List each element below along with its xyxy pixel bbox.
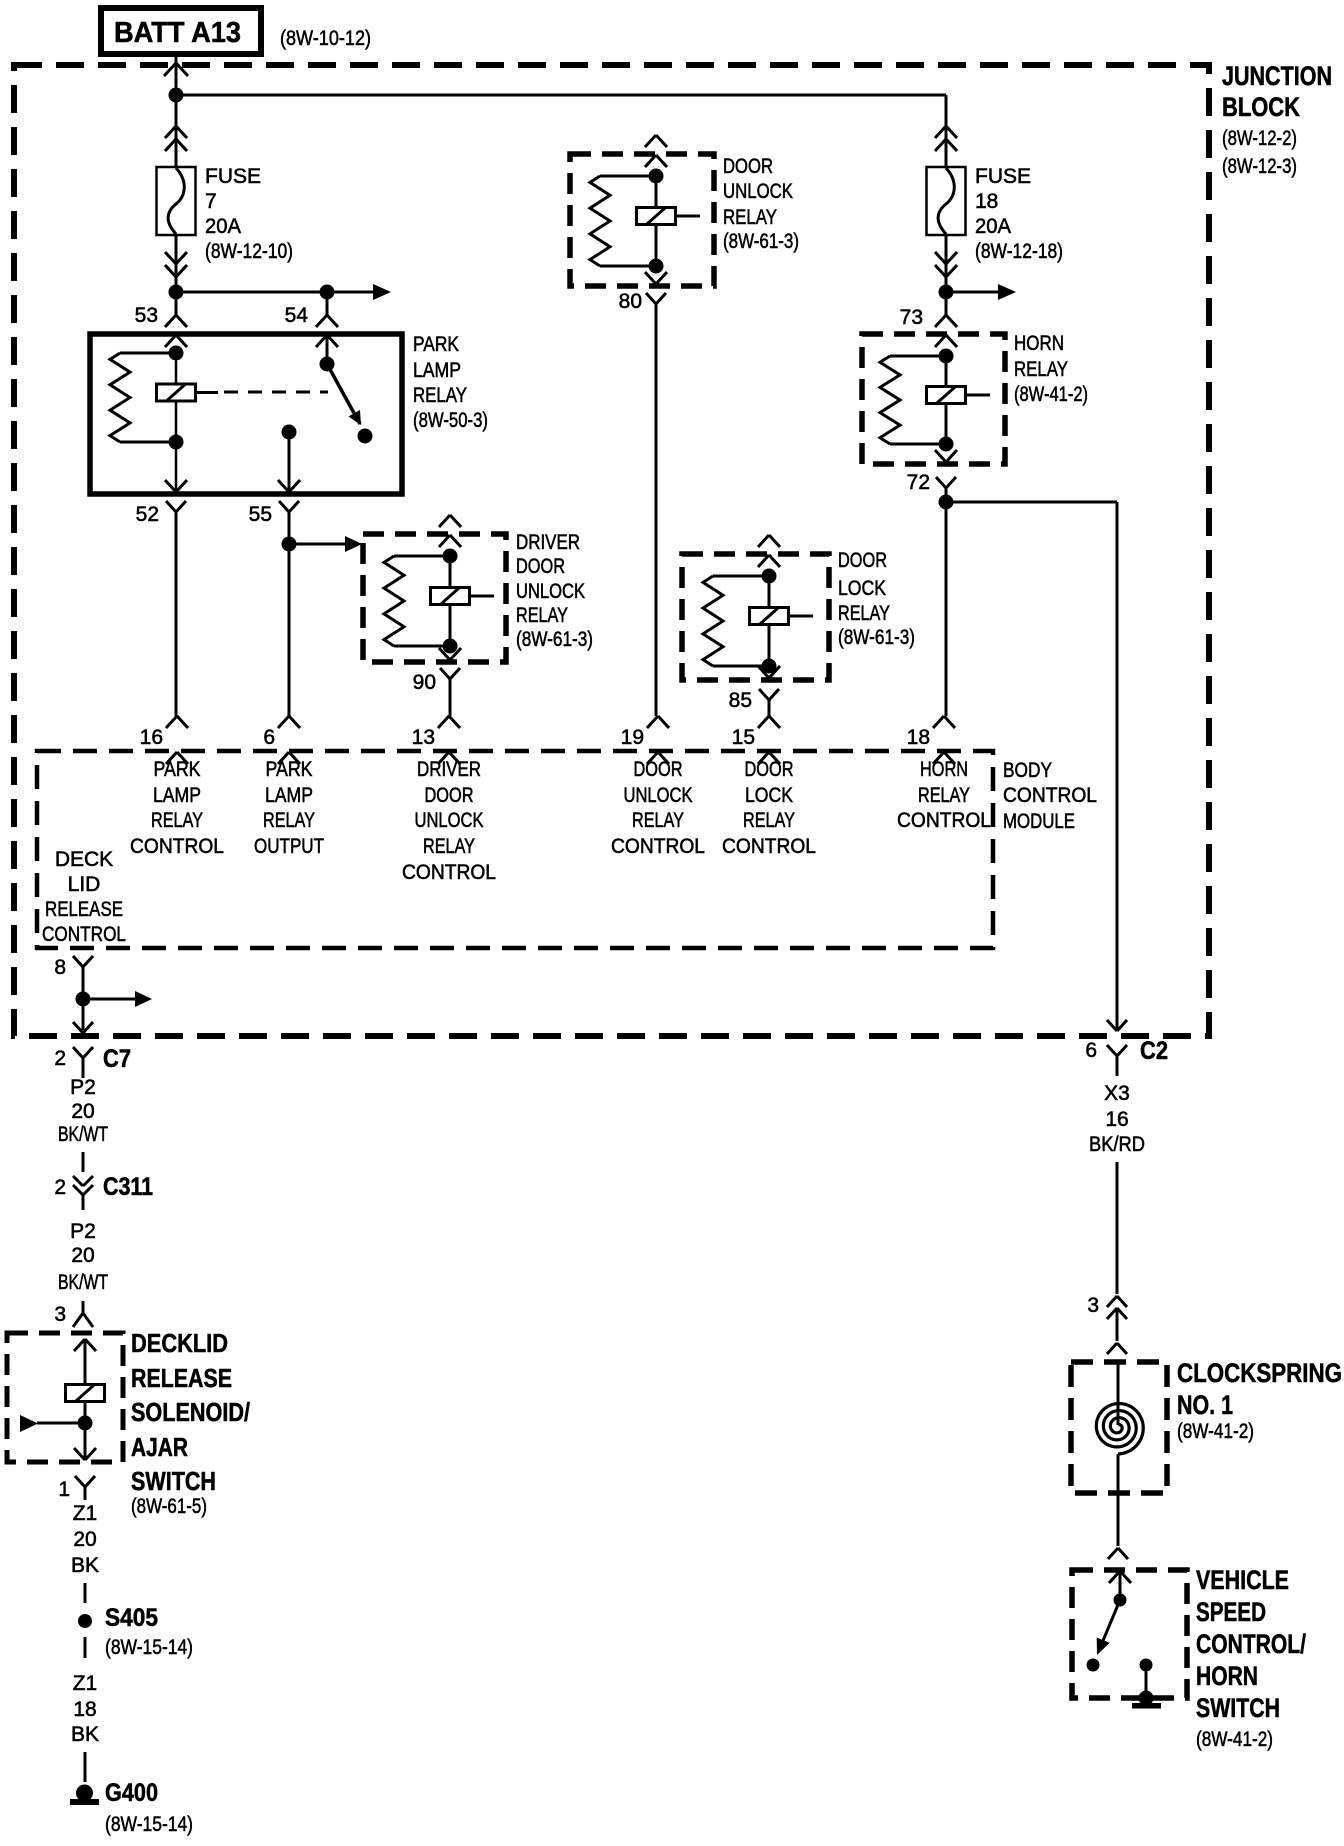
svg-text:UNLOCK: UNLOCK [624, 784, 693, 807]
svg-text:LOCK: LOCK [838, 577, 886, 600]
svg-text:RELAY: RELAY [838, 602, 890, 625]
svg-text:(8W-61-3): (8W-61-3) [723, 230, 799, 253]
svg-text:SWITCH: SWITCH [1196, 1693, 1280, 1723]
svg-text:RELAY: RELAY [632, 809, 684, 832]
svg-text:SOLENOID/: SOLENOID/ [131, 1397, 250, 1427]
svg-text:RELAY: RELAY [723, 206, 777, 229]
svg-text:RELAY: RELAY [1014, 358, 1068, 381]
svg-text:18: 18 [975, 190, 998, 213]
svg-text:DOOR: DOOR [723, 155, 773, 178]
svg-text:G400: G400 [105, 1779, 158, 1807]
svg-text:20: 20 [71, 1100, 94, 1123]
svg-text:80: 80 [619, 290, 642, 313]
svg-text:DOOR: DOOR [838, 549, 887, 572]
svg-text:DOOR: DOOR [745, 758, 794, 781]
svg-text:UNLOCK: UNLOCK [415, 809, 484, 832]
svg-text:DECK: DECK [55, 848, 113, 871]
svg-text:MODULE: MODULE [1003, 810, 1075, 833]
svg-text:BATT A13: BATT A13 [114, 17, 241, 49]
svg-text:C2: C2 [1140, 1037, 1168, 1065]
svg-text:19: 19 [621, 726, 644, 749]
svg-text:3: 3 [1087, 1294, 1099, 1317]
svg-text:73: 73 [900, 306, 923, 329]
svg-text:NO. 1: NO. 1 [1177, 1390, 1233, 1420]
svg-text:(8W-15-14): (8W-15-14) [105, 1813, 193, 1836]
svg-text:(8W-41-2): (8W-41-2) [1196, 1728, 1273, 1751]
svg-text:CONTROL: CONTROL [42, 923, 126, 946]
svg-text:RELEASE: RELEASE [131, 1363, 232, 1393]
svg-text:DOOR: DOOR [516, 555, 565, 578]
svg-text:85: 85 [729, 689, 752, 712]
svg-text:RELAY: RELAY [263, 809, 315, 832]
svg-text:LID: LID [68, 873, 101, 896]
svg-text:SWITCH: SWITCH [131, 1466, 216, 1496]
svg-text:CONTROL/: CONTROL/ [1196, 1629, 1306, 1659]
svg-text:2: 2 [54, 1176, 66, 1199]
svg-text:20: 20 [71, 1244, 94, 1267]
svg-text:HORN: HORN [1014, 332, 1064, 355]
svg-text:PARK: PARK [266, 758, 313, 781]
svg-text:15: 15 [732, 726, 755, 749]
svg-text:BK/RD: BK/RD [1089, 1133, 1145, 1156]
svg-text:FUSE: FUSE [205, 165, 261, 188]
svg-text:DRIVER: DRIVER [417, 758, 481, 781]
svg-text:6: 6 [1085, 1039, 1097, 1062]
svg-text:18: 18 [907, 726, 930, 749]
svg-text:FUSE: FUSE [975, 165, 1031, 188]
svg-text:RELAY: RELAY [516, 604, 568, 627]
svg-text:Z1: Z1 [73, 1672, 98, 1695]
svg-text:HORN: HORN [920, 758, 968, 781]
svg-text:CONTROL: CONTROL [722, 835, 816, 858]
svg-text:HORN: HORN [1196, 1661, 1258, 1691]
svg-text:CONTROL: CONTROL [897, 809, 991, 832]
svg-text:(8W-15-14): (8W-15-14) [105, 1636, 193, 1659]
svg-text:VEHICLE: VEHICLE [1196, 1565, 1289, 1595]
svg-text:20A: 20A [205, 215, 241, 238]
svg-text:CONTROL: CONTROL [611, 835, 705, 858]
svg-text:Z1: Z1 [73, 1502, 98, 1525]
svg-text:RELAY: RELAY [743, 809, 795, 832]
svg-text:C311: C311 [103, 1173, 153, 1201]
svg-text:DOOR: DOOR [634, 758, 683, 781]
svg-text:52: 52 [136, 503, 159, 526]
svg-text:CONTROL: CONTROL [1003, 784, 1097, 807]
svg-text:BLOCK: BLOCK [1222, 92, 1300, 122]
svg-text:(8W-61-3): (8W-61-3) [516, 628, 593, 651]
svg-text:BK: BK [71, 1723, 99, 1746]
svg-text:(8W-12-2): (8W-12-2) [1222, 127, 1297, 150]
svg-text:LAMP: LAMP [413, 359, 461, 382]
svg-text:20A: 20A [975, 215, 1011, 238]
svg-text:S405: S405 [105, 1604, 158, 1632]
svg-text:SPEED: SPEED [1196, 1597, 1266, 1627]
svg-text:16: 16 [1105, 1108, 1128, 1131]
svg-text:AJAR: AJAR [131, 1432, 188, 1462]
svg-text:7: 7 [205, 190, 217, 213]
svg-text:2: 2 [54, 1047, 66, 1070]
svg-text:54: 54 [285, 304, 309, 327]
svg-text:LOCK: LOCK [745, 784, 793, 807]
svg-text:UNLOCK: UNLOCK [516, 580, 585, 603]
svg-text:PARK: PARK [413, 333, 459, 356]
svg-text:CONTROL: CONTROL [130, 835, 224, 858]
svg-text:RELAY: RELAY [423, 835, 475, 858]
svg-text:DECKLID: DECKLID [131, 1328, 228, 1358]
svg-text:LAMP: LAMP [153, 784, 201, 807]
svg-text:(8W-12-10): (8W-12-10) [205, 240, 293, 263]
svg-text:(8W-61-3): (8W-61-3) [838, 626, 915, 649]
svg-text:20: 20 [73, 1528, 96, 1551]
svg-text:CLOCKSPRING: CLOCKSPRING [1177, 1358, 1342, 1388]
svg-text:PARK: PARK [154, 758, 201, 781]
svg-text:P2: P2 [70, 1220, 96, 1243]
svg-text:13: 13 [412, 726, 435, 749]
svg-text:8: 8 [54, 956, 66, 979]
svg-text:3: 3 [54, 1303, 66, 1326]
svg-text:RELAY: RELAY [151, 809, 203, 832]
svg-text:RELEASE: RELEASE [45, 898, 123, 921]
svg-text:RELAY: RELAY [918, 784, 970, 807]
svg-text:P2: P2 [70, 1076, 96, 1099]
svg-text:6: 6 [263, 726, 275, 749]
svg-text:BODY: BODY [1003, 759, 1052, 782]
svg-text:CONTROL: CONTROL [402, 861, 496, 884]
svg-text:BK/WT: BK/WT [58, 1123, 108, 1146]
svg-text:(8W-41-2): (8W-41-2) [1014, 383, 1088, 406]
svg-text:BK/WT: BK/WT [58, 1271, 108, 1294]
svg-text:UNLOCK: UNLOCK [723, 180, 793, 203]
svg-text:16: 16 [140, 726, 163, 749]
svg-text:55: 55 [249, 503, 272, 526]
svg-text:90: 90 [413, 671, 436, 694]
svg-text:DOOR: DOOR [425, 784, 474, 807]
svg-text:DRIVER: DRIVER [516, 531, 580, 554]
svg-text:(8W-10-12): (8W-10-12) [280, 27, 371, 50]
svg-text:53: 53 [135, 304, 158, 327]
svg-text:(8W-12-3): (8W-12-3) [1222, 155, 1297, 178]
svg-text:X3: X3 [1104, 1082, 1130, 1105]
svg-text:(8W-12-18): (8W-12-18) [975, 240, 1063, 263]
svg-text:OUTPUT: OUTPUT [254, 835, 324, 858]
svg-text:(8W-61-5): (8W-61-5) [131, 1495, 207, 1518]
svg-text:LAMP: LAMP [265, 784, 313, 807]
svg-text:RELAY: RELAY [413, 384, 467, 407]
svg-text:C7: C7 [103, 1045, 131, 1073]
svg-text:BK: BK [71, 1554, 99, 1577]
svg-text:(8W-41-2): (8W-41-2) [1177, 1420, 1254, 1443]
svg-text:(8W-50-3): (8W-50-3) [413, 409, 488, 432]
svg-text:JUNCTION: JUNCTION [1222, 61, 1332, 91]
svg-text:18: 18 [73, 1698, 96, 1721]
svg-text:1: 1 [58, 1478, 70, 1501]
svg-text:72: 72 [907, 471, 930, 494]
